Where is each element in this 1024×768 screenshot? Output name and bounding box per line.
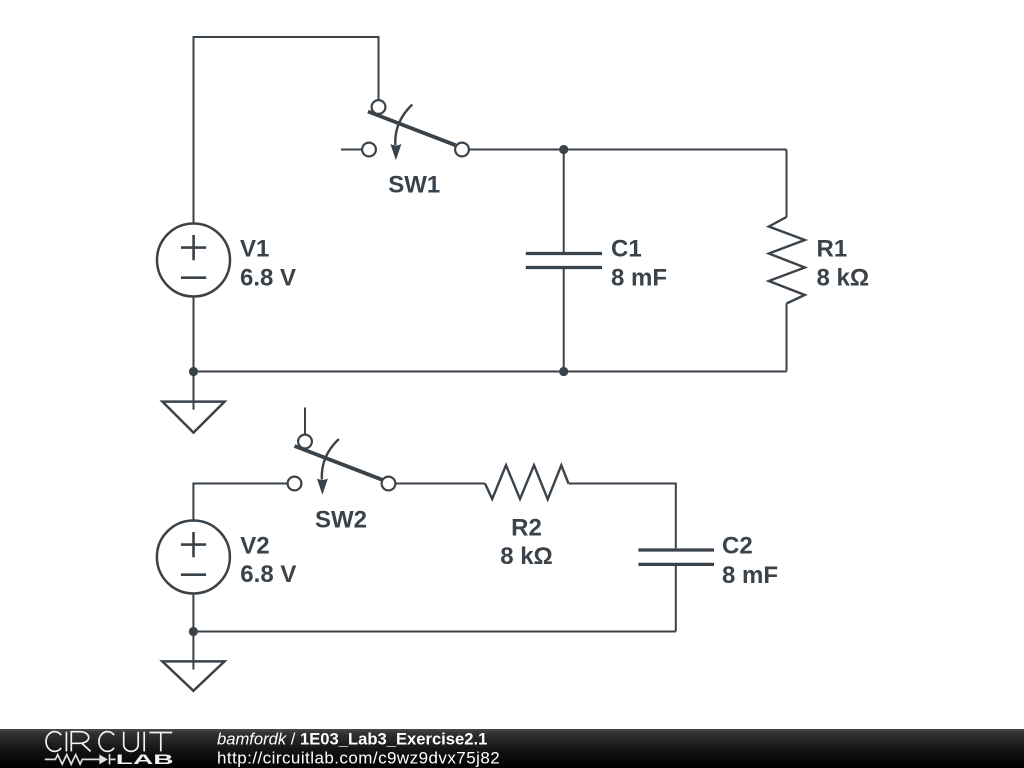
svg-text:8 mF: 8 mF [722, 562, 778, 589]
node dot V2 ground [189, 627, 198, 636]
wire C2 bottom lead [675, 566, 677, 632]
label R1 [817, 236, 870, 292]
wire V1 bottom [193, 297, 195, 372]
switch SW1 [362, 100, 469, 160]
logo letter C [46, 732, 61, 752]
logo diode triangle [99, 754, 108, 764]
svg-text:SW2: SW2 [315, 507, 367, 534]
svg-text:SW1: SW1 [388, 171, 440, 198]
svg-text:V1: V1 [240, 236, 269, 263]
node dot V1 ground [189, 367, 198, 376]
node dot bottom C1 [559, 367, 568, 376]
wire V1 top to SW1 [194, 37, 379, 224]
wire SW2 right to R2 [395, 483, 485, 485]
SW1 arrowhead [390, 144, 401, 160]
svg-text:6.8 V: 6.8 V [240, 264, 296, 291]
svg-text:R2: R2 [511, 515, 542, 542]
resistor R1 [769, 217, 805, 304]
label C1 [611, 236, 667, 292]
svg-text:LAB: LAB [116, 752, 174, 767]
label V2 [240, 532, 296, 588]
wire V2 bottom [192, 594, 194, 632]
logo CIRCUIT (drawn thin letters) [46, 732, 172, 752]
SW1 left terminal [362, 143, 376, 157]
voltage source V1 [157, 224, 230, 297]
svg-text:C1: C1 [611, 236, 642, 263]
SW2 actuation arrow arc [322, 439, 339, 480]
wire R2 to C2 top [569, 484, 676, 549]
voltage source V2 [157, 521, 230, 594]
logo resistor-diode glyph [45, 754, 116, 765]
label R2 [500, 515, 553, 571]
SW2 arrowhead [317, 479, 328, 495]
resistor R2 [485, 465, 569, 499]
label V1 [240, 236, 296, 292]
SW2 left terminal [288, 477, 302, 491]
node dot top C1 [559, 145, 568, 154]
wire bottom rail top circuit [194, 371, 787, 373]
SW1 actuation arrow arc [395, 105, 412, 146]
SW1 blade [368, 112, 456, 146]
SW2 right terminal [382, 477, 396, 491]
svg-text:C2: C2 [722, 533, 753, 560]
capacitor C2 [638, 550, 714, 564]
wire R1 top lead [786, 150, 788, 218]
ground bottom circuit [162, 632, 224, 691]
svg-text:R1: R1 [817, 236, 848, 263]
wire SW1 left stub [341, 149, 362, 151]
svg-text:http://circuitlab.com/c9wz9dvx: http://circuitlab.com/c9wz9dvx75j82 [217, 749, 500, 768]
capacitor C1 [526, 254, 602, 268]
svg-text:bamfordk / 1E03_Lab3_Exercise2: bamfordk / 1E03_Lab3_Exercise2.1 [217, 730, 487, 749]
ground top circuit [162, 372, 224, 433]
SW2 blade [295, 446, 383, 480]
logo letter C [99, 732, 114, 752]
switch SW2 [288, 435, 396, 495]
wire C1 top lead [563, 150, 565, 253]
SW1 right terminal [455, 143, 469, 157]
svg-text:V2: V2 [240, 532, 269, 559]
SW1 top terminal [372, 100, 386, 114]
wire C1 bottom lead [563, 269, 565, 372]
wire R1 bottom lead [786, 304, 788, 372]
SW2 top terminal [298, 435, 312, 449]
wire bottom rail bottom circuit [193, 631, 675, 633]
wire V2 top to SW2 left [193, 484, 287, 521]
logo letter T [149, 733, 172, 752]
logo letter U [124, 732, 139, 752]
logo letter I [143, 732, 145, 752]
label C2 [722, 533, 778, 590]
svg-text:8 mF: 8 mF [611, 264, 667, 291]
logo letter R [71, 732, 90, 752]
svg-text:8 kΩ: 8 kΩ [500, 543, 553, 570]
wire SW1 right to R1 top [469, 149, 787, 151]
logo letter I [65, 732, 67, 752]
svg-text:8 kΩ: 8 kΩ [817, 264, 870, 291]
wire SW2 top stub [304, 408, 306, 435]
svg-text:6.8 V: 6.8 V [240, 561, 296, 588]
